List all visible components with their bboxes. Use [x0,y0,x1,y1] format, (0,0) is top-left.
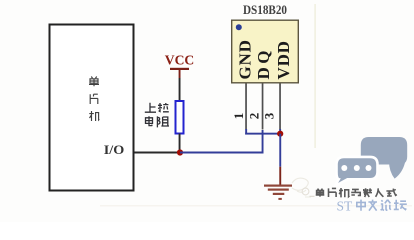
power symbol VCC [165,54,195,79]
svg-text:VCC: VCC [165,54,195,69]
式 [386,189,396,196]
resistor R1 pull-up [176,101,184,134]
svg-text:GND: GND [236,39,255,79]
pin number 3 [261,112,276,119]
wire to ground (blue then maroon) [279,134,281,185]
wire junction to DQ (blue) [180,130,264,154]
pin name GND [236,39,255,79]
wire VCC to resistor (black) [179,78,181,101]
label 单片机 (vertical) [89,77,99,122]
中 [357,200,365,211]
svg-text:ST: ST [337,198,354,213]
坛 [394,200,407,210]
svg-text:2: 2 [247,113,262,120]
IC U2 DS18B20 body [232,20,299,83]
pin name DQ [254,47,273,80]
上 [145,103,156,112]
单 [89,77,99,87]
pin number 2 [247,113,262,120]
pin 2 lead [262,84,264,130]
pin 3 lead [279,84,281,130]
svg-text:DQ: DQ [254,47,273,80]
faint page artifact bottom rule [100,205,412,206]
机 [89,111,99,121]
watermark bubble dots [341,165,371,171]
电 [146,116,153,125]
svg-text:VDD: VDD [274,40,293,79]
junction dot node IO/R1 [177,149,183,155]
watermark small chat bubble [335,157,378,187]
watermark doodle (faint) [292,178,315,197]
svg-text:DS18B20: DS18B20 [243,2,287,17]
嵌 [363,188,372,197]
入 [376,188,384,196]
与 [351,189,360,195]
片 [90,94,98,104]
label 上拉电阻 [145,103,169,128]
svg-text:1: 1 [231,113,246,120]
机 [339,188,349,197]
ground symbol [264,185,292,200]
watermark large chat bubble [361,137,407,179]
wire GND to VDD (blue) [245,129,281,135]
microcontroller U1 box [50,25,134,191]
片 [329,188,337,197]
watermark text 单片机与嵌入式 [316,188,397,197]
拉 [158,103,169,112]
svg-text:I/O: I/O [104,142,125,157]
pin name VDD [274,40,293,79]
pin number 1 [231,113,246,120]
论 [381,200,391,211]
wire resistor to junction (black) [179,134,181,152]
junction dot node GND/VDD [277,131,283,137]
pin label I/O [104,142,125,157]
pin 1 lead [245,84,247,130]
svg-text:3: 3 [261,112,276,119]
阻 [157,116,169,127]
单 [316,189,325,197]
文 [368,200,377,211]
watermark text ST中文论坛 [337,198,354,213]
wire I/O black segment [135,152,181,154]
faint page artifact vertical line [314,4,315,148]
pin-1 indicator dot [236,24,242,30]
label DS18B20 [243,2,287,17]
